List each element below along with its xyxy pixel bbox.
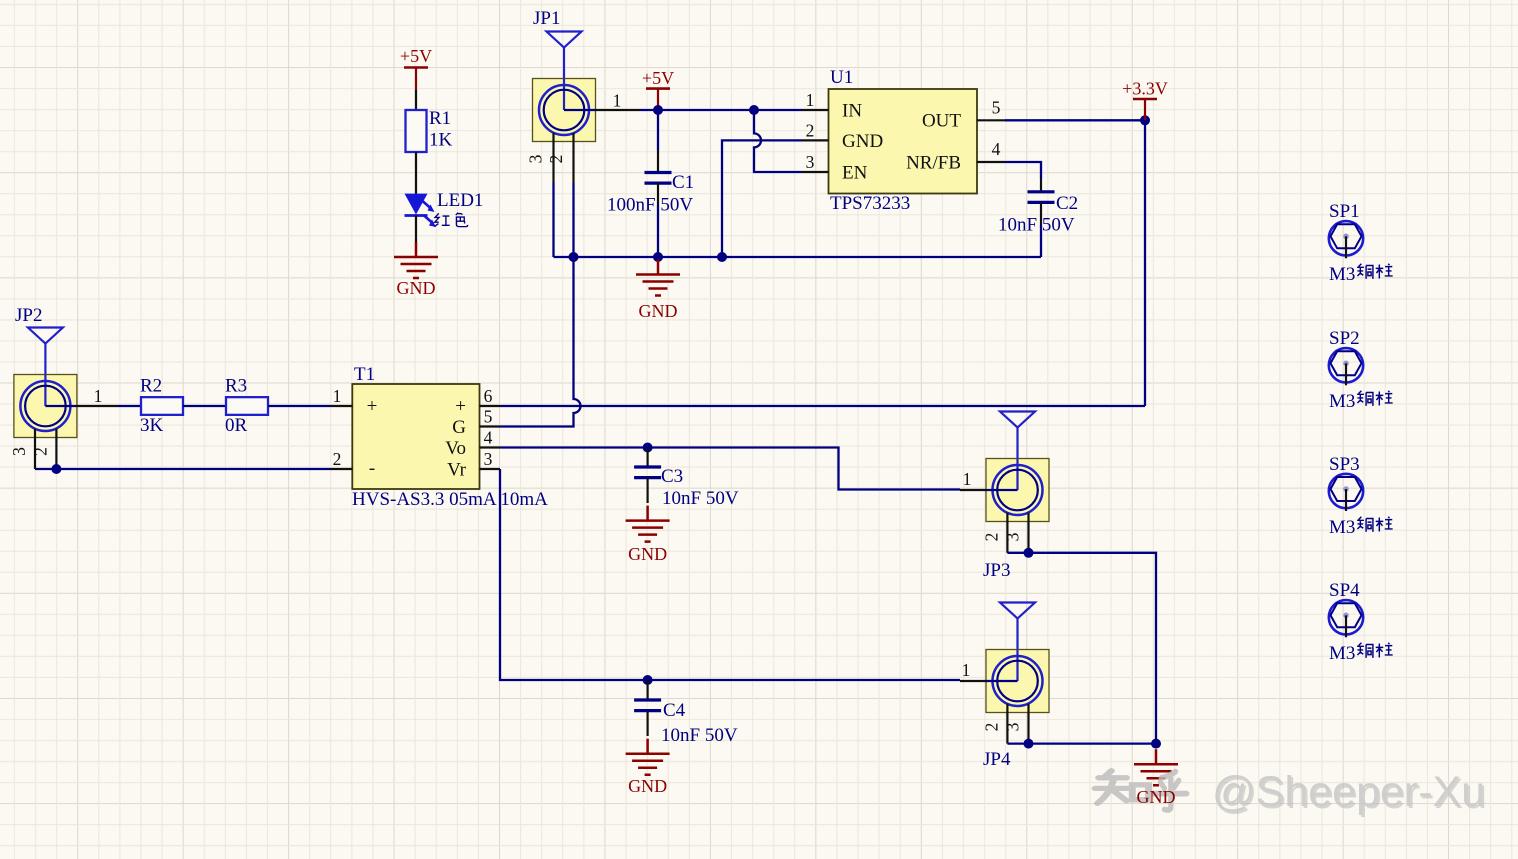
junction	[643, 443, 653, 453]
svg-text:GND: GND	[628, 776, 667, 796]
connector JP2	[9, 305, 118, 469]
wire	[415, 152, 417, 194]
wire	[640, 109, 658, 111]
power +5V (R1 branch)	[400, 46, 432, 90]
svg-text:SP2: SP2	[1329, 328, 1360, 349]
svg-text:0R: 0R	[225, 415, 248, 436]
wire	[1007, 742, 1028, 744]
svg-text:1: 1	[613, 91, 622, 111]
svg-text:3: 3	[484, 449, 493, 469]
wire (to EN, hop over GND wire)	[754, 110, 802, 172]
wire	[1007, 552, 1028, 554]
svg-text:GND: GND	[397, 278, 436, 298]
wire (T1 G to JP1 pin2, hop)	[500, 257, 581, 427]
svg-text:3K: 3K	[140, 415, 164, 436]
svg-text:GND: GND	[1137, 787, 1176, 807]
wire (T1 pin6 to +3.3V)	[500, 405, 1145, 407]
svg-text:T1: T1	[354, 364, 375, 385]
wire (+5V to IN)	[658, 109, 802, 111]
module T1 HVS-AS3.3	[330, 364, 548, 510]
svg-text:+5V: +5V	[400, 46, 432, 66]
junction	[1140, 115, 1150, 125]
svg-text:R2: R2	[140, 376, 162, 397]
svg-text:@Sheeper-Xu: @Sheeper-Xu	[1212, 768, 1485, 816]
svg-text:G: G	[452, 417, 466, 438]
svg-text:3: 3	[1003, 722, 1023, 731]
svg-text:OUT: OUT	[922, 111, 961, 132]
svg-text:100nF 50V: 100nF 50V	[607, 195, 693, 216]
svg-text:NR/FB: NR/FB	[906, 153, 961, 174]
svg-text:1: 1	[962, 660, 971, 680]
svg-text:SP3: SP3	[1329, 454, 1360, 475]
wire	[35, 468, 56, 470]
svg-text:U1: U1	[830, 67, 853, 88]
junction	[51, 464, 61, 474]
power +5V (C1 branch)	[642, 68, 674, 110]
svg-text:+: +	[455, 396, 466, 417]
svg-text:GND: GND	[628, 544, 667, 564]
svg-text:4: 4	[484, 428, 493, 448]
wire	[657, 205, 659, 257]
svg-text:1: 1	[94, 386, 103, 406]
svg-text:R1: R1	[429, 108, 451, 129]
svg-text:1K: 1K	[429, 130, 453, 151]
svg-text:JP3: JP3	[983, 560, 1010, 581]
svg-text:-: -	[369, 458, 375, 479]
svg-text:+3.3V: +3.3V	[1122, 79, 1168, 99]
wire	[183, 405, 226, 407]
svg-text:10nF 50V: 10nF 50V	[998, 215, 1075, 236]
svg-text:C2: C2	[1056, 193, 1078, 214]
resistor R2 3K	[140, 376, 183, 437]
wire	[657, 110, 659, 150]
wire	[118, 405, 141, 407]
spacer SP3 M3铜柱	[1329, 454, 1393, 538]
spacer SP1 M3铜柱	[1329, 201, 1393, 285]
svg-text:10nF 50V: 10nF 50V	[661, 725, 738, 746]
svg-text:Vr: Vr	[447, 460, 467, 481]
ground GND (bottom right)	[1134, 749, 1178, 785]
svg-text:1: 1	[333, 386, 342, 406]
svg-text:2: 2	[31, 447, 51, 456]
LED LED1 红色	[405, 190, 484, 227]
wire (GND bus)	[554, 256, 1042, 258]
svg-text:10nF 50V: 10nF 50V	[662, 488, 739, 509]
capacitor C1 100nF 50V	[607, 150, 694, 216]
svg-text:5: 5	[484, 407, 493, 427]
svg-text:HVS-AS3.3 05mA 10mA: HVS-AS3.3 05mA 10mA	[352, 489, 548, 510]
svg-text:JP2: JP2	[15, 305, 42, 326]
wire (JP3 gnd run)	[1029, 553, 1157, 744]
svg-text:R3: R3	[225, 376, 247, 397]
svg-text:2: 2	[546, 155, 566, 164]
resistor R3 0R	[225, 376, 268, 437]
svg-text:C4: C4	[663, 700, 686, 721]
ground GND (C4)	[626, 739, 670, 796]
connector JP4	[960, 603, 1049, 771]
junction	[1151, 739, 1161, 749]
svg-text:M3: M3	[1329, 391, 1355, 412]
svg-text:M3: M3	[1329, 643, 1355, 664]
watermark 知乎 @Sheeper-Xu	[1095, 768, 1487, 818]
svg-text:M3: M3	[1329, 264, 1355, 285]
wire	[268, 405, 330, 407]
wire	[415, 216, 417, 244]
ground GND (LED1)	[394, 242, 438, 298]
resistor R1 1K	[406, 108, 453, 152]
svg-text:+5V: +5V	[642, 68, 674, 88]
svg-text:3: 3	[526, 154, 546, 163]
svg-text:1: 1	[806, 90, 815, 110]
wire (Vr run to JP4)	[500, 469, 960, 680]
svg-text:GND: GND	[639, 301, 678, 321]
svg-text:SP1: SP1	[1329, 201, 1360, 222]
svg-text:C1: C1	[672, 172, 694, 193]
junction	[1024, 548, 1034, 558]
svg-text:TPS73233: TPS73233	[830, 193, 910, 214]
wire (JP4 gnd run)	[1029, 742, 1157, 744]
svg-text:1: 1	[963, 469, 972, 489]
junction	[749, 105, 759, 115]
wire (JP1 pin3 to GND bus)	[552, 183, 554, 257]
wire (JP2 to T1 pin2)	[56, 468, 330, 470]
svg-text:2: 2	[333, 449, 342, 469]
junction	[1024, 739, 1034, 749]
svg-text:Vo: Vo	[445, 438, 466, 459]
svg-text:LED1: LED1	[437, 190, 483, 211]
junction	[643, 675, 653, 685]
svg-text:5: 5	[992, 98, 1001, 118]
wire (GND pin)	[722, 140, 802, 257]
svg-text:2: 2	[806, 121, 815, 141]
wire (+3.3V rail down)	[1144, 120, 1146, 406]
svg-text:3: 3	[1003, 532, 1023, 541]
power +3.3V	[1122, 79, 1168, 121]
svg-text:4: 4	[992, 139, 1001, 159]
capacitor C3 10nF 50V	[634, 448, 739, 510]
junction	[717, 252, 727, 262]
connector JP3	[960, 412, 1049, 582]
wire	[415, 90, 417, 110]
svg-text:3: 3	[9, 447, 29, 456]
svg-text:M3: M3	[1329, 517, 1355, 538]
junction	[653, 252, 663, 262]
wire (Vo run to JP3)	[500, 448, 960, 490]
svg-text:GND: GND	[842, 131, 883, 152]
ground GND (C1)	[636, 260, 680, 322]
junction	[569, 252, 579, 262]
connector JP1	[526, 8, 641, 183]
svg-text:2: 2	[982, 533, 1002, 542]
svg-text:JP1: JP1	[533, 8, 560, 29]
spacer SP4 M3铜柱	[1329, 580, 1393, 664]
svg-text:2: 2	[982, 723, 1002, 732]
wire (JP1 pin2 down)	[572, 183, 574, 257]
svg-text:+: +	[367, 396, 378, 417]
capacitor C2 10nF 50V	[998, 162, 1078, 257]
svg-text:6: 6	[484, 386, 493, 406]
svg-text:3: 3	[806, 152, 815, 172]
svg-text:SP4: SP4	[1329, 580, 1360, 601]
regulator U1 TPS73233	[802, 67, 1005, 214]
svg-text:JP4: JP4	[983, 749, 1011, 770]
capacitor C4 10nF 50V	[634, 680, 738, 746]
ground GND (C3)	[626, 506, 670, 564]
svg-text:C3: C3	[661, 466, 683, 487]
wire (OUT)	[1005, 119, 1145, 121]
spacer SP2 M3铜柱	[1329, 328, 1393, 412]
junction	[653, 105, 663, 115]
svg-text:IN: IN	[842, 101, 862, 122]
svg-text:EN: EN	[842, 163, 868, 184]
